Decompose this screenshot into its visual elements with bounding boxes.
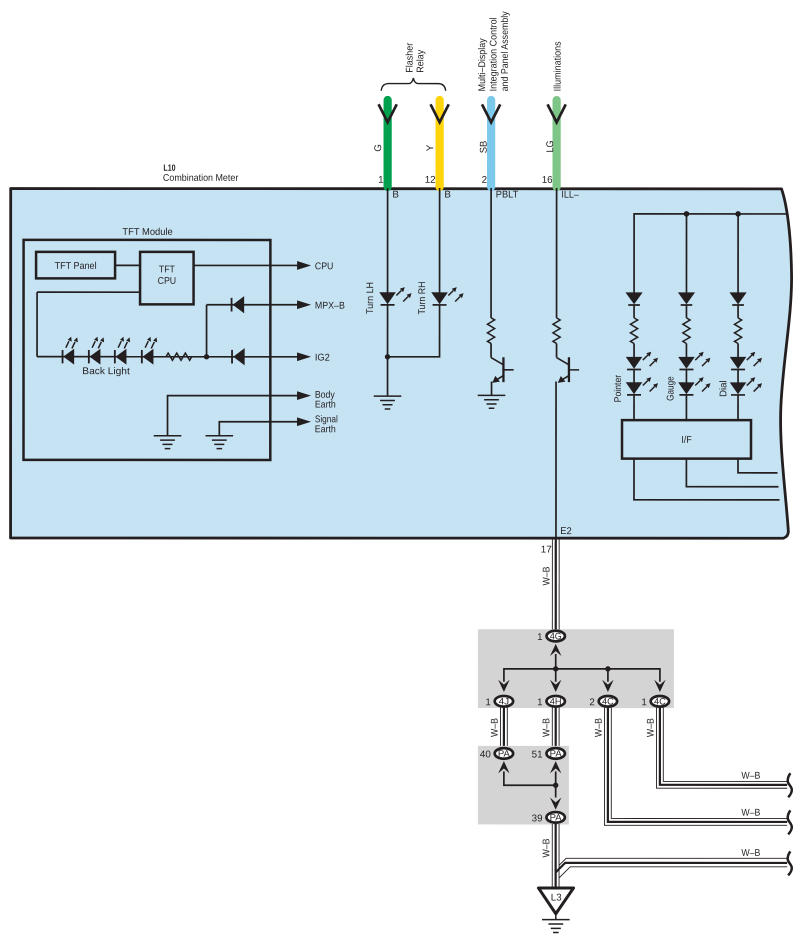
junction block gray box 1	[478, 629, 674, 708]
diode D1 (MPX-B)	[232, 296, 245, 313]
wire	[633, 343, 635, 357]
svg-text:W–B: W–B	[541, 838, 552, 857]
svg-text:2: 2	[589, 697, 594, 708]
ground (L3 earth)	[542, 920, 570, 933]
wire turn LH lower	[387, 305, 389, 396]
wire I/F out gauge	[686, 459, 778, 487]
arrow MPX-B	[297, 300, 311, 309]
wire	[737, 370, 739, 383]
svg-text:1: 1	[641, 697, 646, 708]
arrow Body Earth	[297, 391, 311, 400]
svg-text:Back Light: Back Light	[82, 366, 130, 377]
svg-text:1: 1	[485, 697, 490, 708]
node dot dial feed	[735, 211, 741, 217]
wire I/F out dial	[738, 459, 778, 473]
svg-text:Combination Meter: Combination Meter	[163, 173, 239, 184]
wire illumination bus (top right)	[634, 214, 787, 293]
svg-text:Y: Y	[425, 144, 436, 151]
LED gauge 1	[678, 352, 710, 370]
svg-text:TFT: TFT	[159, 264, 175, 275]
node junction dot IG2	[204, 354, 209, 359]
LED back light 3	[115, 337, 130, 365]
wire ILL- (pin 16 to resistor)	[556, 188, 558, 318]
svg-text:L3: L3	[551, 892, 562, 903]
I/F box U1	[622, 420, 751, 459]
LED pointer 1	[626, 352, 658, 370]
combination meter block L10 (light blue body with torn right edge)	[11, 189, 792, 539]
arrow Signal Earth	[297, 417, 311, 426]
svg-text:CPU: CPU	[158, 276, 177, 287]
svg-text:Multi–Display: Multi–Display	[477, 38, 488, 91]
svg-text:Integration Control: Integration Control	[488, 17, 499, 91]
ground (signal earth)	[206, 436, 234, 449]
wire Y (yellow) from flasher relay	[436, 100, 444, 187]
diode D4 (gauge chain)	[678, 292, 695, 305]
connector PA (pin 51)	[546, 748, 564, 759]
resistor R1 (back light)	[166, 353, 192, 360]
node dot at 4H drop	[553, 666, 558, 671]
resistor R2 (PBLT)	[487, 318, 494, 344]
svg-text:4G: 4G	[550, 631, 562, 641]
TFT Panel box	[36, 252, 115, 279]
svg-text:51: 51	[532, 749, 543, 760]
wire signal earth	[219, 422, 298, 436]
svg-text:Pointer: Pointer	[613, 374, 624, 402]
svg-text:W–B: W–B	[594, 718, 605, 737]
svg-text:TFT Module: TFT Module	[122, 227, 173, 238]
svg-text:and Panel Assembly: and Panel Assembly	[500, 11, 511, 91]
continuation curl bundle 2	[788, 810, 792, 834]
wire back light feed (left riser)	[37, 292, 140, 357]
node dot gauge feed	[684, 211, 690, 217]
connector PA (pin 39)	[546, 812, 564, 823]
arrow up into PA51	[550, 761, 561, 773]
wire W-B from pin 17 (triple line)	[552, 539, 559, 631]
svg-text:PA: PA	[498, 749, 511, 759]
resistor R5 (gauge)	[683, 318, 690, 344]
svg-text:Turn RH: Turn RH	[417, 282, 428, 315]
diode D2 (IG2)	[232, 348, 245, 365]
svg-text:1: 1	[537, 632, 542, 643]
svg-text:Gauge: Gauge	[666, 376, 677, 401]
svg-text:W–B: W–B	[741, 771, 760, 782]
wire SB (light blue) from multi-display assembly	[487, 100, 495, 187]
wire L3 stub	[555, 914, 557, 920]
wire turn RH lower joining LH	[388, 305, 440, 357]
svg-text:TFT Panel: TFT Panel	[55, 261, 97, 272]
transistor Q2 (ILL-)	[557, 357, 580, 383]
connector 4H	[547, 696, 565, 707]
arrow up into PA40	[498, 761, 509, 773]
svg-text:IG2: IG2	[315, 353, 330, 364]
wire junction vertical MPX-B to IG2	[206, 305, 208, 357]
arrow IG2	[297, 352, 311, 361]
node junction dot turn	[385, 354, 390, 359]
arrow down into 4C pin2	[602, 680, 613, 692]
arrow up into 4G	[550, 644, 561, 656]
continuation curl bundle 3	[788, 851, 792, 875]
LED back light 4	[142, 337, 157, 365]
transistor Q1 (PBLT)	[491, 357, 514, 383]
arrow down into 4J	[498, 680, 509, 692]
arrow down into PA39	[550, 797, 561, 809]
diode D3 (pointer chain)	[625, 292, 642, 305]
wire pointer to I/F	[633, 395, 635, 420]
wire PBLT (pin 2 to resistor)	[490, 188, 492, 318]
connector 4G	[547, 631, 565, 642]
ground (body earth)	[154, 436, 182, 449]
svg-text:12: 12	[425, 175, 436, 186]
connector PA (pin 40)	[495, 748, 513, 759]
TFT Module box	[24, 240, 271, 460]
svg-text:W–B: W–B	[541, 718, 552, 737]
wire turn RH (pin 12 to LED)	[439, 188, 441, 293]
LED back light 1	[63, 337, 78, 365]
wire resistor to transistor	[490, 343, 492, 357]
wire gauge to I/F	[685, 395, 687, 420]
wire	[685, 370, 687, 383]
svg-text:PA: PA	[550, 749, 563, 759]
wire	[737, 344, 739, 358]
connector 4C (pin 2)	[599, 696, 617, 707]
wire	[633, 305, 635, 318]
wire W-B 4H to PA51 (triple)	[552, 708, 559, 748]
wire 4G to bus	[555, 654, 557, 669]
wire PA40 joining PA51 line	[504, 771, 556, 785]
svg-text:PA: PA	[550, 813, 563, 823]
svg-text:4C: 4C	[602, 696, 614, 706]
node dot at 4C drop	[605, 666, 610, 671]
svg-text:G: G	[373, 144, 384, 152]
wire PA51 down	[555, 771, 557, 797]
svg-text:Turn LH: Turn LH	[365, 282, 376, 314]
svg-text:39: 39	[532, 813, 543, 824]
svg-text:LG: LG	[545, 141, 556, 153]
svg-text:Relay: Relay	[415, 50, 426, 73]
svg-text:W–B: W–B	[741, 808, 760, 819]
arrow CPU	[297, 261, 311, 270]
svg-text:W–B: W–B	[741, 848, 760, 859]
svg-text:4H: 4H	[550, 696, 562, 706]
TFT CPU box	[140, 252, 194, 305]
wire dial chain top	[737, 214, 739, 293]
wire	[633, 369, 635, 382]
wire	[685, 305, 687, 318]
svg-text:Dial: Dial	[718, 380, 729, 397]
LED gauge 2	[678, 377, 710, 395]
svg-text:PBLT: PBLT	[496, 190, 519, 201]
svg-text:MPX–B: MPX–B	[315, 301, 345, 312]
wire E2 down (emitter to pin E2)	[555, 382, 557, 539]
connector 4C (pin 1)	[651, 696, 669, 707]
wire W-B PA39 to ground L3 (triple)	[552, 824, 559, 887]
svg-text:2: 2	[482, 175, 487, 186]
arrow down into 4C pin1	[654, 680, 665, 692]
svg-text:Illuminations: Illuminations	[553, 41, 564, 91]
wire distribution bus	[504, 669, 660, 682]
wire W-B 4C pin1 branch (triple with corner to right)	[656, 708, 787, 789]
svg-text:SB: SB	[479, 140, 490, 153]
wire turn LH (pin 1 to LED)	[387, 188, 389, 293]
ground (PBLT)	[478, 395, 506, 408]
svg-text:16: 16	[542, 175, 553, 186]
LED pointer 2	[626, 377, 658, 395]
svg-text:B: B	[444, 190, 451, 201]
svg-text:4J: 4J	[499, 696, 510, 706]
connector V mark on G	[379, 104, 397, 122]
wire G (green) from flasher relay	[384, 100, 392, 187]
wire emitter to ground	[491, 382, 493, 396]
svg-text:4C: 4C	[654, 696, 666, 706]
wire	[737, 305, 739, 318]
wire W-B 4C pin2 branch (triple with corner to right)	[604, 708, 787, 826]
ground (turn LEDs)	[374, 396, 402, 409]
arrow down into 4H	[550, 680, 561, 692]
wire dial to I/F	[737, 395, 739, 420]
svg-text:Earth: Earth	[315, 399, 336, 410]
svg-text:1: 1	[378, 175, 383, 186]
wire W-B bundle 3 branch (triple, diagonal off the vertical)	[556, 858, 788, 878]
brace for flasher relay	[381, 78, 445, 91]
LED turn LH	[379, 287, 411, 305]
ground triangle L3	[538, 888, 573, 914]
LED turn RH	[431, 287, 463, 305]
svg-text:W–B: W–B	[490, 718, 501, 737]
connector V mark on SB	[482, 104, 500, 122]
svg-text:40: 40	[480, 749, 491, 760]
svg-text:W–B: W–B	[541, 566, 552, 585]
svg-text:Flasher: Flasher	[405, 42, 416, 73]
connector 4J	[495, 696, 513, 707]
resistor R4 (pointer)	[630, 318, 637, 344]
resistor R6 (dial)	[734, 318, 741, 344]
wire CPU output	[194, 264, 299, 266]
wire LG (light green) from illuminations	[553, 100, 561, 187]
wire resistor to transistor	[556, 343, 558, 357]
wire IG2 row	[37, 356, 298, 358]
continuation curl bundle 1	[788, 773, 792, 797]
resistor R3 (ILL-)	[553, 318, 560, 344]
wire TFT Panel to TFT CPU	[115, 264, 140, 266]
svg-text:1: 1	[537, 697, 542, 708]
connector V mark on Y	[431, 104, 449, 122]
LED back light 2	[89, 337, 104, 365]
svg-text:I/F: I/F	[681, 435, 692, 446]
LED dial 2	[730, 377, 762, 395]
svg-text:ILL–: ILL–	[561, 190, 579, 201]
wire gauge chain top	[685, 214, 687, 293]
svg-text:17: 17	[541, 545, 552, 556]
connector V mark on LG	[548, 104, 566, 122]
svg-text:CPU: CPU	[315, 261, 334, 272]
svg-text:Earth: Earth	[315, 424, 336, 435]
wire W-B 4J to PA40 (triple)	[500, 708, 507, 748]
LED dial 1	[730, 352, 762, 370]
wire	[685, 344, 687, 358]
svg-text:B: B	[392, 189, 399, 200]
junction block gray box 2	[478, 746, 569, 825]
svg-text:E2: E2	[560, 526, 572, 537]
svg-text:L10: L10	[163, 163, 175, 173]
node junction dot PA	[553, 783, 558, 788]
wire I/F out pointer	[634, 459, 780, 500]
wire MPX-B row	[207, 304, 298, 306]
diode D5 (dial chain)	[729, 292, 746, 305]
svg-text:W–B: W–B	[646, 718, 657, 737]
wire body earth	[168, 396, 299, 436]
